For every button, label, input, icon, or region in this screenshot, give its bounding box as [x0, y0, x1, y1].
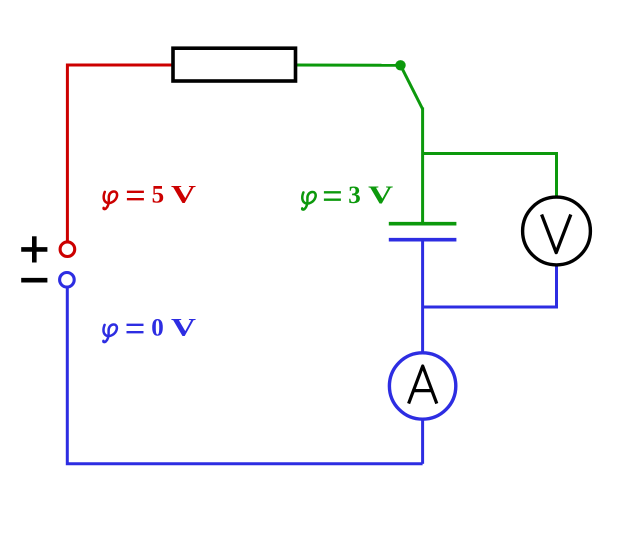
- wire red from + terminal up and right to resistor: [67, 65, 173, 244]
- label phi = 3 V equals sign: [324, 192, 341, 199]
- wire blue ammeter to bottom rail: [421, 418, 424, 464]
- svg-text:0V: 0V: [151, 315, 196, 342]
- voltmeter letter V: [542, 215, 571, 253]
- label phi = 3 V: [302, 192, 316, 210]
- wire green resistor to junction: [295, 64, 401, 67]
- capacitor C top plate: [389, 222, 457, 226]
- ammeter U2 circle: [389, 353, 455, 419]
- ammeter letter A: [409, 366, 437, 404]
- wire green tee to voltmeter: [423, 154, 557, 199]
- voltmeter U1 circle: [523, 197, 591, 265]
- terminal + (red open circle): [60, 242, 75, 257]
- wire blue bottom rail and left riser to - terminal: [67, 285, 422, 464]
- wire switch blade diagonal: [401, 65, 423, 109]
- node junction dot: [395, 60, 405, 70]
- label phi = 5 V equals sign: [127, 192, 144, 199]
- label phi = 0 V: [103, 324, 117, 342]
- wire blue voltmeter bottom leg: [423, 264, 557, 308]
- minus sign: [21, 278, 47, 283]
- terminal - (blue open circle): [60, 273, 75, 288]
- resistor R: [173, 48, 296, 81]
- plus sign: [21, 236, 47, 262]
- svg-text:5V: 5V: [152, 182, 196, 209]
- label phi = 5 V: [104, 191, 118, 209]
- wire green vertical to capacitor: [421, 108, 424, 224]
- capacitor C bottom plate: [389, 238, 457, 242]
- label phi = 0 V equals sign: [127, 325, 144, 332]
- svg-text:3V: 3V: [348, 182, 393, 209]
- wire blue capacitor down to ammeter: [421, 240, 424, 354]
